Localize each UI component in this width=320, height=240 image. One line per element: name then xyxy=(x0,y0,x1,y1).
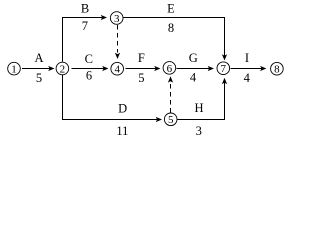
value 3 (H) xyxy=(196,124,202,138)
node 5 xyxy=(164,113,177,126)
svg-text:2: 2 xyxy=(60,63,66,75)
node 8 xyxy=(271,62,284,75)
svg-text:7: 7 xyxy=(82,19,88,33)
svg-text:A: A xyxy=(34,51,43,65)
svg-text:4: 4 xyxy=(114,64,120,76)
arrowhead D xyxy=(156,117,162,122)
arrowhead A xyxy=(48,66,54,71)
label C xyxy=(85,52,93,66)
wire activity I (7-8) xyxy=(231,68,263,70)
arrowhead E (down into 7) xyxy=(222,54,227,60)
value 5 (F) xyxy=(138,71,144,85)
svg-text:F: F xyxy=(138,51,145,65)
svg-text:3: 3 xyxy=(114,13,120,25)
node 7 xyxy=(217,62,230,75)
wire activity D (2-5) xyxy=(63,75,159,120)
arrowhead dummy 3-4 (down) xyxy=(115,53,120,59)
svg-text:D: D xyxy=(118,102,127,116)
svg-text:8: 8 xyxy=(168,21,174,35)
label F xyxy=(138,51,145,65)
value 6 (C) xyxy=(86,69,92,83)
svg-text:5: 5 xyxy=(36,71,42,85)
svg-text:6: 6 xyxy=(167,63,173,75)
svg-text:3: 3 xyxy=(196,124,202,138)
label B xyxy=(81,2,89,16)
svg-text:4: 4 xyxy=(244,71,251,85)
value 7 (B) xyxy=(82,19,88,33)
svg-text:I: I xyxy=(245,51,249,65)
wire activity A (1-2) xyxy=(22,68,51,70)
wire activity C (2-4) xyxy=(72,68,105,70)
dummy dashed arrow 3-4 xyxy=(117,25,119,53)
svg-text:11: 11 xyxy=(116,124,128,138)
arrowhead dummy 5-6 (up) xyxy=(168,76,173,82)
arrowhead G xyxy=(208,66,214,71)
node 2 xyxy=(56,62,69,75)
node 6 xyxy=(163,62,176,75)
svg-text:C: C xyxy=(85,52,93,66)
svg-text:5: 5 xyxy=(138,71,144,85)
value 4 (I) xyxy=(244,71,251,85)
wire activity F (4-6) xyxy=(126,68,157,70)
value 4 (G) xyxy=(190,71,197,85)
svg-text:H: H xyxy=(194,101,203,115)
svg-text:B: B xyxy=(81,2,89,16)
label I xyxy=(245,51,249,65)
svg-text:4: 4 xyxy=(190,71,197,85)
svg-text:E: E xyxy=(167,2,175,16)
arrowhead H (up into 7) xyxy=(222,78,227,84)
label E xyxy=(167,2,175,16)
label G xyxy=(189,51,198,65)
value 8 (E) xyxy=(168,21,174,35)
node 4 xyxy=(111,62,124,75)
wire activity E (3-7) xyxy=(123,18,224,57)
svg-text:7: 7 xyxy=(221,63,227,75)
wire activity B riser from node 2 xyxy=(63,18,104,62)
svg-text:8: 8 xyxy=(274,64,280,76)
svg-text:G: G xyxy=(189,51,198,65)
svg-text:1: 1 xyxy=(11,64,17,76)
value 5 (A) xyxy=(36,71,42,85)
wire activity G (6-7) xyxy=(177,68,211,70)
wire activity H (5-7) xyxy=(178,82,225,120)
svg-text:6: 6 xyxy=(86,69,92,83)
label H xyxy=(194,101,203,115)
node 3 xyxy=(110,12,123,25)
value 11 (D) xyxy=(116,124,128,138)
arrowhead I xyxy=(260,66,266,71)
node 1 xyxy=(8,62,21,75)
arrowhead B xyxy=(101,15,107,20)
dummy dashed arrow 5-6 xyxy=(170,83,172,113)
arrowhead C xyxy=(102,66,108,71)
arrowhead F xyxy=(154,66,160,71)
svg-text:5: 5 xyxy=(168,114,174,126)
label A xyxy=(34,51,43,65)
label D xyxy=(118,102,127,116)
